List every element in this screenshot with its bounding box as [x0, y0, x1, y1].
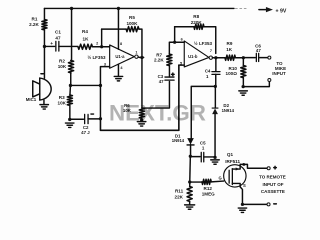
capacitor C1 [50, 41, 59, 51]
wire to R8 [175, 26, 194, 28]
node pin3 column [99, 84, 102, 87]
pin 1 label [135, 51, 137, 55]
svg-text:U1-b: U1-b [188, 54, 198, 59]
op-amp U1-a [110, 45, 139, 68]
microphone MIC1 [33, 74, 51, 100]
node R3 bottom [68, 118, 71, 121]
wire R5 to output [139, 29, 142, 57]
label U1-b [188, 54, 198, 59]
wire R9 to C6 node [235, 57, 243, 59]
svg-text:10K: 10K [58, 101, 67, 106]
svg-text:10K: 10K [58, 64, 67, 69]
wire D2 to node C [214, 114, 216, 157]
svg-text:CASSETTE: CASSETTE [261, 189, 285, 194]
ground mic [40, 105, 49, 109]
svg-text:R3: R3 [59, 95, 65, 100]
svg-text:TO REMOTE: TO REMOTE [259, 174, 286, 179]
svg-text:22K: 22K [175, 195, 184, 200]
wire U1-a output [138, 56, 144, 59]
op-amp U1-b [184, 41, 212, 67]
resistor R5 [126, 27, 139, 32]
node pin6 junction [173, 41, 176, 44]
capacitor C5 [201, 152, 204, 161]
svg-text:R4: R4 [82, 29, 88, 34]
mark - at source terminal [274, 203, 277, 205]
svg-text:R8: R8 [193, 14, 199, 19]
wire divider to R3 [69, 85, 72, 95]
pin 2 label [96, 42, 98, 46]
svg-text:220K: 220K [191, 20, 203, 25]
svg-text:G: G [219, 176, 222, 181]
label R1 [29, 17, 39, 28]
node rail pin8 tap [117, 7, 120, 10]
wire C1 to R4 [59, 45, 78, 47]
wire R6 to ground [141, 118, 143, 121]
wire C6 node to C6 [243, 57, 255, 59]
pin 3 label [104, 63, 106, 67]
resistor R7 [167, 54, 172, 66]
label C1 [55, 30, 61, 41]
wire D1 to node B [190, 144, 192, 156]
svg-text:100K: 100K [126, 21, 138, 26]
node C2 right [99, 117, 102, 120]
label Q1 [225, 152, 240, 164]
svg-text:6: 6 [181, 37, 183, 41]
wire source to terminal [242, 203, 267, 205]
svg-text:C1: C1 [55, 30, 61, 35]
resistor R9 [225, 55, 236, 60]
label D1 [172, 133, 185, 143]
wire R3 to bottom node [69, 105, 71, 119]
wire node B to C5 [190, 156, 200, 158]
svg-text:½ LF353: ½ LF353 [87, 54, 106, 60]
node C D2 bottom [213, 156, 216, 159]
svg-text:1K: 1K [83, 37, 90, 42]
label C4 [205, 69, 211, 79]
wire R7 to pin6 [169, 42, 184, 54]
label C6 [255, 44, 261, 53]
wire node to R11 [189, 182, 191, 186]
svg-text:R2: R2 [59, 59, 65, 64]
svg-text:1N914: 1N914 [222, 108, 235, 113]
svg-text:S: S [243, 183, 246, 188]
resistor R6 [139, 108, 144, 118]
svg-text:R9: R9 [227, 41, 233, 46]
wire output to R9 [216, 57, 225, 59]
wire rail to R1 [43, 8, 45, 19]
wire drain to terminal [240, 164, 267, 168]
svg-text:2.2K: 2.2K [29, 22, 39, 27]
node rail R2 tap [70, 7, 73, 10]
wire node A to D2 [214, 86, 216, 108]
wire C2 node to pin5 (bold) [100, 65, 178, 130]
pin 6 label [181, 37, 183, 41]
wire C6 to terminal [259, 57, 268, 59]
wire U1-b output [212, 57, 217, 59]
svg-text:R1: R1 [32, 17, 38, 22]
node B D1 bottom [189, 155, 192, 158]
ground U1-a [114, 76, 122, 80]
wire R12 to gate [211, 180, 223, 183]
svg-text:47: 47 [55, 35, 61, 40]
node R6 bottom [140, 118, 143, 121]
wire output to C4 [215, 58, 217, 72]
svg-text:3: 3 [104, 63, 106, 67]
svg-text:1: 1 [135, 51, 137, 55]
wire divider to pin3 column [70, 84, 100, 86]
label R8 [191, 14, 203, 25]
svg-text:47: 47 [256, 48, 261, 53]
+9V arrow [259, 7, 287, 15]
label R11 [175, 188, 184, 199]
wire C4 to node A [215, 74, 217, 86]
node mic junction [43, 45, 46, 48]
pin G label [219, 176, 222, 181]
label R3 [58, 95, 67, 106]
svg-text:U1-a: U1-a [115, 54, 125, 59]
node R4/R5 junction [100, 45, 103, 48]
svg-text:100Ω: 100Ω [226, 71, 238, 76]
svg-text:7: 7 [210, 49, 212, 53]
label R2 [58, 59, 67, 70]
wire R1 to mic node [43, 30, 45, 47]
label TO REMOTE INPUT OF CASSETTE [259, 174, 286, 194]
wire output down to R6 [141, 57, 143, 108]
resistor R11 [187, 186, 192, 201]
svg-text:R11: R11 [175, 188, 184, 193]
resistor R4 [78, 44, 93, 49]
wire rail to pin8 [117, 8, 119, 49]
wire R6 node to C3 [142, 81, 170, 108]
resistor R1 [42, 19, 47, 30]
wire pin4 to ground [117, 64, 119, 76]
wire mic node to MIC1 [43, 46, 45, 78]
svg-text:NEXT.GR: NEXT.GR [109, 101, 206, 126]
diode D2 [212, 108, 218, 114]
svg-text:2.2K: 2.2K [154, 58, 164, 63]
wire rail to R2 [70, 8, 73, 60]
svg-text:MIC1: MIC1 [26, 97, 37, 102]
node R11 top [188, 180, 191, 183]
svg-text:INPUT: INPUT [272, 71, 286, 76]
resistor R10 [241, 65, 246, 77]
label R6 [123, 103, 132, 113]
node U1-a output [140, 56, 143, 59]
diode D1 [187, 138, 194, 145]
capacitor C3 [165, 73, 174, 80]
label R9 [226, 41, 233, 52]
label MIC1 [26, 97, 37, 102]
svg-text:Q1: Q1 [227, 152, 234, 157]
pin 7 label [210, 49, 212, 53]
wire node A to D1 column [191, 86, 215, 138]
ground Q1 source [238, 208, 246, 212]
svg-text:2: 2 [96, 42, 98, 46]
wire R4 to pin2 [92, 46, 109, 48]
capacitor C2 [85, 114, 94, 124]
label U1-a [115, 54, 125, 59]
wire R3 node to C2 [70, 118, 84, 120]
resistor R12 [202, 179, 211, 184]
svg-text:8: 8 [120, 42, 122, 46]
resistor R3 [67, 95, 72, 106]
ground R3 [65, 123, 74, 127]
capacitor C6 [256, 53, 258, 61]
label R12 [202, 186, 215, 196]
node U1-b output [214, 56, 217, 59]
label C2 [81, 125, 90, 135]
wire MIC1 to ground [43, 100, 45, 104]
wire R8 to output [204, 27, 216, 54]
capacitor C4 [212, 72, 220, 75]
label TO MIKE INPUT [272, 61, 286, 76]
wire R10 to ground node [242, 78, 244, 87]
wire C3 to R7 [168, 66, 170, 77]
wire node to R12 [190, 181, 202, 183]
ground D2 node [211, 160, 220, 164]
label D2 [222, 103, 235, 113]
terminal mic input return [268, 79, 271, 82]
wire R2 to divider node [70, 73, 72, 86]
wire pin6 node up [174, 27, 176, 43]
ground R6 [137, 122, 146, 126]
label R5 [126, 15, 138, 26]
wire pin3 column up [100, 67, 109, 86]
svg-text:IRF511: IRF511 [225, 159, 240, 164]
wire R11 to ground [189, 201, 191, 204]
svg-text:R7: R7 [156, 52, 162, 57]
svg-text:1K: 1K [226, 47, 233, 52]
label R4 [82, 29, 89, 42]
svg-text:+ 9V: + 9V [276, 9, 287, 15]
pin 4 label [120, 66, 123, 70]
pin D label [243, 162, 246, 167]
svg-text:R5: R5 [129, 15, 135, 20]
resistor R2 [68, 60, 73, 72]
label C3 [158, 74, 165, 84]
svg-text:½ LF353: ½ LF353 [194, 40, 213, 46]
label R10 [226, 66, 238, 76]
wire to R5 [102, 28, 127, 30]
pin 8 label [120, 42, 122, 46]
node R10 top [242, 56, 245, 59]
mark + at drain terminal [274, 166, 277, 169]
wire C5 to node C [204, 156, 215, 158]
ground R11 [185, 205, 195, 209]
transistor Q1 body [224, 164, 246, 187]
pin 5 label [180, 62, 182, 66]
resistor R8 [194, 24, 204, 29]
terminal remote return [267, 203, 270, 206]
svg-text:47: 47 [159, 79, 164, 84]
wire source down [240, 187, 242, 205]
terminal remote signal [267, 167, 270, 170]
wire pin3 column down [99, 85, 101, 118]
svg-text:INPUT OF: INPUT OF [262, 182, 283, 187]
ground R10 [239, 91, 248, 95]
svg-text:47 J: 47 J [81, 130, 90, 135]
wire node to R10 [242, 58, 244, 66]
terminal mic input signal [268, 56, 271, 59]
watermark NEXT.GR [109, 101, 206, 126]
wire pin5 stub [179, 64, 184, 66]
svg-text:+: + [50, 42, 53, 47]
svg-text:R12: R12 [204, 186, 213, 191]
wire C2 to pin3 column [88, 118, 100, 120]
pin S label [243, 183, 246, 188]
node R10 bottom [242, 85, 245, 88]
wire pin2 node up [101, 29, 103, 47]
svg-text:1N914: 1N914 [172, 138, 185, 143]
node source ground [241, 203, 244, 206]
wire to mic-input return terminal [243, 82, 269, 87]
label R7 [154, 52, 164, 62]
label half LF353 B [194, 40, 213, 46]
node divider midpoint [69, 84, 72, 87]
wire mic node to C1 [44, 45, 54, 47]
label half LF353 A [87, 54, 106, 60]
wire +9V rail [44, 7, 248, 9]
node A C4 bottom [214, 85, 217, 88]
label C5 [200, 140, 206, 150]
svg-text:1MEG: 1MEG [202, 191, 215, 196]
wire node B down [189, 156, 192, 182]
